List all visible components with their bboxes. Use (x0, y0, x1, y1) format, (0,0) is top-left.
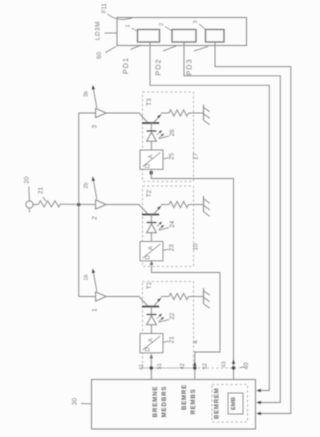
label 4 (dashed block driver 1) (192, 340, 199, 344)
svg-text:1: 1 (92, 308, 99, 312)
wire PD2 to controller (184, 42, 280, 403)
wire D/A ch2 to controller (150, 261, 220, 367)
svg-text:REMBS: REMBS (190, 388, 197, 414)
svg-text:LD3M: LD3M (95, 21, 102, 40)
svg-text:EMB: EMB (231, 397, 237, 410)
svg-text:BEMREM: BEMREM (215, 388, 221, 419)
wire buffer 1 to transistor T1 (106, 296, 140, 298)
svg-text:2: 2 (92, 216, 99, 220)
label 3 (chip 3) (193, 21, 205, 30)
svg-text:D: D (145, 254, 151, 259)
photodiode PD2 (chip) (172, 30, 196, 43)
svg-text:D: D (145, 346, 151, 351)
svg-text:43: 43 (221, 361, 227, 367)
laser diode LD2 (cathode bar up) (147, 215, 164, 242)
svg-text:1: 1 (126, 25, 132, 28)
svg-text:A: A (149, 155, 155, 159)
terminal tick (28, 209, 30, 213)
transistor T2 (140, 205, 162, 214)
wire buffer 3 to transistor T3 (106, 112, 140, 114)
label 25 (D/A DA3) (164, 152, 176, 159)
table box (228, 393, 243, 414)
control input arrow of buffer B1 (92, 269, 97, 292)
svg-text:40: 40 (243, 362, 250, 369)
ground (channel 1) (203, 288, 205, 304)
svg-text:3: 3 (193, 21, 199, 24)
node on input bus (77, 203, 80, 206)
D/A converter DA3 (140, 150, 163, 169)
svg-text:BEMRE: BEMRE (181, 384, 188, 410)
svg-text:T1: T1 (146, 281, 153, 289)
svg-text:21: 21 (38, 187, 45, 194)
wire buffer 2 to transistor T2 (106, 204, 140, 206)
direction arrow on ch3 riser (232, 360, 235, 364)
svg-text:PD2: PD2 (153, 58, 162, 75)
svg-text:T3: T3 (146, 98, 153, 106)
svg-text:T2: T2 (146, 189, 153, 197)
svg-text:1b: 1b (84, 275, 90, 281)
svg-text:MEDBRS: MEDBRS (161, 386, 168, 418)
svg-text:3: 3 (92, 124, 99, 128)
load resistor (channel 1) (169, 293, 189, 299)
svg-text:30: 30 (72, 398, 79, 406)
direction arrow on ch2 riser (193, 362, 196, 366)
label 20 (input terminal) (23, 176, 30, 201)
wire D/A ch3 output branch (150, 170, 234, 367)
svg-text:4: 4 (192, 340, 199, 344)
svg-text:A: A (149, 338, 155, 342)
node 43 (232, 366, 235, 369)
label PD1 (121, 45, 141, 74)
wire resistor to ground (channel 2) (189, 204, 204, 206)
wire ch2 into controller (194, 367, 196, 380)
D/A converter DA2 (140, 242, 163, 261)
wire resistor to ground (channel 1) (189, 296, 204, 298)
svg-text:42: 42 (180, 363, 186, 369)
load resistor (channel 3) (169, 110, 189, 116)
svg-text:F11: F11 (102, 3, 108, 14)
label 23 (D/A DA2) (164, 244, 176, 251)
photodiode PD1 (chip) (138, 30, 160, 43)
dashed block 4 (driver 1) (143, 282, 194, 369)
svg-text:PD3: PD3 (185, 58, 194, 75)
svg-text:PD1: PD1 (121, 57, 130, 74)
wire PD1 to controller (150, 42, 269, 391)
svg-text:D: D (145, 163, 151, 168)
svg-text:BREMNE: BREMNE (152, 386, 159, 418)
control input arrow of buffer B3 (92, 85, 97, 108)
wire emitter T3 to load resistor (161, 112, 169, 114)
wire bus to buffer 1 (79, 296, 96, 298)
dashed block 17 (driver 3) (143, 92, 194, 182)
label 60 (LD module) (96, 46, 116, 59)
svg-text:25: 25 (169, 152, 176, 159)
controller box 30 (92, 380, 256, 430)
laser diode LD1 (cathode bar up) (147, 307, 164, 334)
memory dashed box (212, 385, 248, 423)
wire terminal to resistor (33, 203, 38, 205)
label 10 (dashed block driver 2) (192, 243, 199, 250)
label 30 (controller) (72, 398, 91, 406)
label PD2 (153, 46, 176, 76)
label 17 (dashed block driver 3) (192, 153, 199, 160)
wire resistor to input bus (61, 203, 96, 205)
svg-text:2: 2 (159, 23, 165, 26)
label 24 (laser diode LD2) (159, 220, 176, 230)
wire emitter T2 to load resistor (161, 204, 169, 206)
buffer amplifier B3 (96, 108, 107, 117)
D/A converter DA1 (140, 334, 163, 353)
svg-text:23: 23 (169, 244, 176, 251)
transistor T3 (140, 114, 162, 123)
interface dashed line 40 (143, 367, 241, 369)
figure label F11 (102, 3, 133, 20)
label 1 (chip 1) (126, 25, 138, 32)
svg-text:26: 26 (169, 129, 176, 136)
wire D/A ch1 to controller (150, 354, 153, 380)
dashed block 10 (driver 2) (143, 186, 194, 267)
photodiode PD3 (chip) (206, 30, 225, 43)
label 26 (laser diode LD3) (159, 129, 176, 139)
control input arrow of buffer B2 (92, 177, 97, 200)
input terminal 20 (26, 201, 33, 208)
svg-text:2b: 2b (84, 183, 90, 189)
load resistor (channel 2) (169, 201, 189, 207)
laser diode module 60 (outline) (117, 18, 247, 46)
ground (channel 2) (203, 196, 205, 212)
wire ch3 into controller (233, 367, 235, 380)
label 21 (resistor) (38, 187, 46, 202)
svg-text:20: 20 (23, 176, 30, 184)
label 40 (interface) (240, 362, 250, 369)
label 2 (chip 2) (159, 23, 172, 31)
svg-text:51: 51 (157, 363, 163, 369)
label 22 (laser diode LD1) (159, 312, 176, 322)
wire bus to buffer 3 (79, 112, 96, 114)
input bus (vertical rail) (78, 113, 80, 297)
resistor 21 (39, 201, 61, 207)
wire PD3 to controller (215, 42, 291, 414)
label LD3M (module) (95, 21, 117, 40)
svg-text:A: A (149, 246, 155, 250)
transistor T1 (140, 297, 162, 306)
node 42 (193, 366, 196, 369)
buffer amplifier B2 (96, 200, 107, 209)
wire resistor to ground (channel 3) (189, 112, 204, 114)
svg-text:21: 21 (169, 336, 176, 343)
buffer amplifier B1 (96, 292, 107, 301)
svg-text:10: 10 (192, 243, 199, 250)
ground (channel 3) (203, 105, 205, 121)
wire emitter T1 to load resistor (161, 296, 169, 298)
node 41 (150, 366, 153, 369)
label PD3 (185, 47, 209, 76)
svg-text:41: 41 (139, 364, 145, 370)
svg-text:24: 24 (169, 220, 176, 227)
svg-text:22: 22 (169, 312, 176, 319)
svg-text:60: 60 (96, 52, 103, 60)
laser diode LD3 (cathode bar up) (147, 123, 164, 150)
svg-text:17: 17 (192, 153, 199, 160)
svg-text:52: 52 (203, 363, 209, 369)
label 21 (D/A DA1) (164, 336, 176, 343)
svg-text:3b: 3b (84, 91, 90, 97)
